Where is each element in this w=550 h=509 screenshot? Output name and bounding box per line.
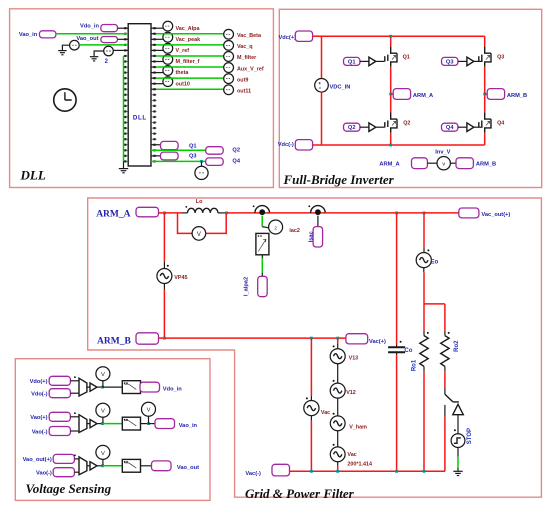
wire - Vdc(-) tag to rail [313,144,322,146]
node - Eo branch [423,212,426,215]
node - Vdo_in probe [101,386,104,389]
wire - voltmeter loop right [206,214,227,233]
svg-text:Vac_peak: Vac_peak [176,37,201,43]
tag I_alpa2 (vertical) [258,276,268,296]
source V13 [330,349,345,364]
wire - ARM_B tag to node [159,337,165,339]
wire - DLL pin to probe out11 (green) [151,88,156,90]
wire - Vac to bus [310,416,312,421]
wire - Vao(+) to summer [70,416,79,418]
wire - Co to bus [396,355,398,472]
wire - V13 chain top lead [337,338,339,344]
wire - triangle to STOP source [457,415,459,434]
node - second probe [147,422,150,425]
source Eo [416,253,431,268]
tag Vac_out(+) [459,208,479,218]
filter block Vao_in [122,417,140,430]
svg-text:V: V [101,451,105,457]
node - ARM_B junction [163,337,166,340]
wire - phase A rail segments [390,36,392,46]
wire - Vdo(-) to summer [70,392,79,394]
svg-text:ARM_B: ARM_B [97,336,131,346]
svg-text:I_alpa2: I_alpa2 [244,277,250,296]
svg-text:ARM_A: ARM_A [413,93,433,99]
svg-text:2: 2 [274,226,277,231]
tag Vao(-) [53,468,74,477]
svg-text:Co: Co [404,348,412,354]
probe Vac_Beta [224,29,234,39]
svg-text:out11: out11 [237,88,251,94]
svg-text:Q2: Q2 [348,125,356,131]
wire - Vdo(+) to summer [70,380,79,382]
wire - sensor1 to DLL pin4 (green) [79,44,128,46]
tag Vdc(+) [295,31,312,41]
Full-Bridge Inverter section border box [279,9,541,187]
node - phase A bottom [389,144,392,147]
probe V_ref [163,43,173,53]
probe Vac_peak [163,32,173,42]
wire - iac2 sensor drop (green) [261,216,263,227]
svg-text:Vdo_in: Vdo_in [80,23,99,29]
wire - node to filter [103,465,123,467]
svg-text:STOP: STOP [467,428,473,444]
wire - V_ham to Vac200 [337,431,339,447]
wire - DC bus bottom rail [322,144,485,146]
svg-text:Full-Bridge Inverter: Full-Bridge Inverter [283,172,395,187]
tag gate Q4 [442,123,458,131]
tag Vdo(-) [49,389,70,398]
source Vac (grid) [304,401,319,416]
svg-text:Vao_out: Vao_out [177,465,199,471]
wire - gate tag to driver Q1 [360,60,369,62]
svg-text:Vdc(+): Vdc(+) [279,35,297,41]
probe VP2 (on Q4 wire) [195,166,208,179]
wire - node to filter [103,386,123,388]
tag Q4 out [206,158,224,166]
svg-text:Vao_out(+): Vao_out(+) [23,457,52,463]
wire - gate tag to driver Q4 [458,126,467,128]
wire - filter to second probe node [141,423,149,425]
tag Q2 out [206,147,224,155]
svg-text:Q2: Q2 [232,148,240,154]
tag Vao_out [152,461,172,471]
wire - Isac sensor drop [317,216,319,227]
wire - DLL pin to tag Q1 [151,144,161,146]
svg-text:Vdo_in: Vdo_in [163,386,182,392]
node - Vao_out probe [101,464,104,467]
source Vac 200*1.414 [330,447,345,462]
probe M_filter_f [163,55,173,65]
wire - Ro1 upper lead [423,304,425,331]
tag Vao_out(+) [53,454,74,463]
svg-text:ARM_B: ARM_B [507,93,527,99]
clock symbol [54,89,76,111]
probe Vac_Alpa [163,21,173,31]
wire - node to filter [103,423,123,425]
wire - Eo to resistor branch [423,268,425,273]
probe out9 [224,74,234,84]
wire - DC bus top rail [322,35,485,37]
DLL section border box [10,9,274,188]
svg-text:Vdo(-): Vdo(-) [31,392,48,398]
ground - sensor2 [90,56,98,58]
svg-text:Vac_Beta: Vac_Beta [237,33,262,39]
node - ARM_A junction [163,212,166,215]
wire - DLL pin to probe Vac_q (green) [151,44,156,46]
wire - DLL grounded-input bus (green vertical) [123,56,125,161]
wire - Co branch down [396,213,398,345]
voltmeter across Lo [192,227,206,241]
source V12 [330,383,345,398]
svg-text:Vac_Alpa: Vac_Alpa [176,26,201,32]
wire - hook to iac2 probe [262,227,269,228]
wire - driver to gate Q4 [474,126,483,128]
wire - VP45 to ARM_B node [163,284,165,290]
node - probe on Q4 wire [200,160,203,163]
ground - DLL input bus [119,168,128,170]
wire - Vao_out(+) to summer [74,458,79,460]
wire - driver to gate Q3 [474,60,483,62]
tag Q1 out [161,141,179,149]
wire - Ro1 lower lead to bus [423,366,425,371]
wire - node to inductor [164,212,182,214]
tag ARM_B meter [456,158,473,169]
wire - Vdc(+) tag to rail [313,35,322,37]
tag ARM_B (filter) [136,333,159,344]
filter block Vdo_in [122,381,140,394]
tag Vdc(-) [295,140,312,150]
svg-text:Q3: Q3 [446,59,454,65]
svg-text:Q4: Q4 [497,120,504,126]
svg-text:out9: out9 [237,77,248,83]
voltmeter probe 2 over Vao_in [142,402,156,416]
resistor Ro2 [441,336,449,367]
switch STOP blade [445,394,459,402]
source V_ham [330,416,345,431]
DLL right pins [151,27,157,162]
wire - Vdo_in tag to DLL pin1 [118,27,129,29]
wire - Vac grid branch [310,338,312,396]
tag gate Q3 [442,57,458,65]
svg-text:Vao_out: Vao_out [76,36,98,42]
wire - sensor2 to DLL pin5 [113,49,128,51]
svg-text:V12: V12 [346,390,356,396]
svg-text:Vao_in: Vao_in [179,423,198,429]
DLL block U1 body [128,24,151,166]
node - Vac branch [310,337,313,340]
svg-text:Q4: Q4 [232,159,240,165]
scope probe block I_alpa2 [256,233,269,254]
svg-text:Q4: Q4 [446,125,454,131]
wire - DLL pin to tag Q2 (green) [151,149,206,151]
svg-text:V: V [101,372,105,378]
wire - DLL pin to probe M_filter_f [151,61,163,63]
gate driver triangle Q1 [369,57,376,66]
wire - buffer to node [97,423,103,425]
svg-text:Vao(+): Vao(+) [30,415,47,421]
svg-text:V: V [147,408,151,414]
node - ARM_A mid junction [389,93,392,96]
transistor Q1 (MOSFET) [385,47,397,67]
DLL left pins [124,27,129,162]
resistor Ro1 [420,336,428,367]
svg-text:Q1: Q1 [403,55,410,61]
wire - to Vac_out tag [424,212,459,214]
tag Isac (vertical) [313,227,323,247]
node - bus Ro1 [423,470,426,473]
probe out11 [224,85,234,95]
summer Vao_in [79,415,87,433]
voltmeter probe over Vao_out [96,445,110,459]
svg-text:Ro1: Ro1 [412,359,418,371]
inductor Lo [182,212,188,214]
svg-text:Grid & Power Filter: Grid & Power Filter [245,486,355,501]
voltmeter probe over Vao_in [96,403,110,417]
transistor Q4 (MOSFET) [479,113,491,133]
svg-text:Q3: Q3 [189,154,197,160]
tag Vao(-) [49,427,70,436]
svg-text:Vao(-): Vao(-) [32,429,48,435]
wire - left rail upper (Vdc+) [321,36,323,78]
tag Vac(-) [272,464,290,476]
source VDC_IN [315,79,329,93]
gate driver triangle Q4 [467,123,474,132]
node - bus V13 chain [336,470,339,473]
summer Vao_out [79,457,87,475]
source VP45 [157,269,172,284]
wire - ARM_B horizontal to Vac(+) [164,337,346,339]
gate driver triangle Q3 [467,57,474,66]
sensor VSEN2 (voltage sensor at DLL input) [104,46,114,56]
wire - voltmeter to tag [450,162,456,164]
sensor VSEN1 (voltage sensor at DLL input) [70,40,80,50]
probe out10 [163,77,173,87]
wire - jog to Ro2 [424,303,445,305]
wire - main line to current sensor 1 [227,212,255,214]
svg-text:M_filter_f: M_filter_f [176,59,200,65]
switch gate triangle [453,404,464,414]
wire - DLL pin to tag Q3 [151,155,161,157]
wire - DLL pin to probe Aux_V_ref (green) [151,66,156,68]
node - Vao_in probe [101,422,104,425]
svg-text:V_ham: V_ham [349,424,367,430]
tag gate Q2 [344,123,360,131]
wire - Vao(-) to summer [74,471,79,473]
svg-text:V_ref: V_ref [176,48,190,54]
tag gate Q1 [344,57,360,65]
transistor Q2 (MOSFET) [385,113,397,133]
svg-text:ARM_A: ARM_A [96,209,130,219]
wire - V13 to V12 [337,364,339,383]
wire - buffer to node [97,386,103,388]
ground - STOP source [453,470,462,472]
svg-text:Vao_in: Vao_in [19,32,38,38]
wire - Ro2 upper lead [444,304,446,331]
wire - probe stem [102,417,104,424]
tag Vdo_in [101,25,118,32]
wire - to ARM_B tag [485,93,488,95]
svg-text:Vac(-): Vac(-) [245,471,261,477]
wire - bottom bus [290,470,445,472]
svg-text:200*1.414: 200*1.414 [347,461,372,467]
wire - to output tag [141,465,152,467]
wire - between current sensors [270,212,311,214]
probe theta [163,66,173,76]
svg-text:iac2: iac2 [289,228,300,234]
ground - sensor1 [58,50,66,52]
wire - DLL pin to probe Vac_peak [151,38,163,40]
tag ARM_A (filter) [136,207,159,217]
svg-text:V: V [197,232,201,238]
wire - gate tag to driver Q2 [360,126,369,128]
wire - DLL pin to probe Vac_Alpa [151,27,163,29]
svg-text:out10: out10 [176,81,190,87]
gate driver triangle Q2 [369,123,376,132]
svg-text:Vao(-): Vao(-) [36,471,52,477]
voltmeter Inv_V [437,157,450,170]
wire - V12 to V_ham [337,398,339,416]
wire - left rail lower [321,92,323,145]
wire - probe stem [102,381,104,388]
svg-text:Voltage Sensing: Voltage Sensing [26,481,112,496]
buffer triangle Vao_in [90,420,97,428]
tag ARM_A meter [412,158,428,169]
tag Vao_in [155,419,175,429]
wire - sensor2 to ground2 [94,51,104,56]
wire - STOP to ground (green) [457,448,459,457]
tag ARM_A (inverter mid A) [393,89,410,100]
Grid & Power Filter section border (L-shape) [88,198,542,497]
svg-text:M_filter: M_filter [237,55,257,61]
wire - sensor2 to node [325,212,396,214]
svg-text:Q2: Q2 [403,120,410,126]
svg-text:VP45: VP45 [174,275,187,281]
svg-text:V13: V13 [349,356,359,362]
wire - Eo branch down [423,213,425,248]
tag Vac(+) [346,334,368,344]
buffer triangle Vao_out [90,462,97,470]
wire - Vao_out tag to DLL pin3 [118,38,129,40]
svg-text:Q1: Q1 [348,59,356,65]
node - Co branch [395,212,398,215]
wire - probe stem [102,459,104,466]
svg-text:DLL: DLL [20,168,46,183]
svg-text:Vac_out(+): Vac_out(+) [481,212,510,218]
wire - DLL pin to tag Q4 (green) [151,160,206,162]
wire - stub to DLL ground [123,161,125,168]
svg-text:Vac_q: Vac_q [237,44,253,50]
probe Vac_q [224,40,234,50]
current sensor hump 2 [311,206,326,213]
wire - switch bottom contact [444,405,446,417]
capacitor Co [396,345,398,347]
wire - to ARM_A tag [391,93,394,95]
wire - left rail ARM_A down to VP45 [163,213,165,262]
svg-text:Vac: Vac [321,410,330,416]
wire - DLL pin to probe V_ref [151,49,163,51]
node - phase A top [389,35,392,38]
wire - DLL pin to probe theta [151,72,163,74]
node - V13 chain branch [336,337,339,340]
wire - DLL pin to probe out10 [151,83,163,85]
svg-text:Q3: Q3 [497,55,504,61]
node - bus Vac branch [310,470,313,473]
wire - Vac200 to bus [337,462,339,466]
tag Vao_out [101,37,118,43]
wire - second probe stem [148,416,150,424]
node - bus Co [395,470,398,473]
filter block Vao_out [122,459,140,472]
tag Vao_in [39,31,56,38]
source STOP (step) [451,434,465,448]
current probe iac2 [269,220,283,234]
wire - tag to voltmeter Inv_V [427,162,437,164]
probe Aux_V_ref [224,63,234,73]
tag Vdo(+) [49,376,70,385]
tag ARM_B (inverter mid B) [487,89,504,100]
wire - voltmeter loop left [178,213,193,234]
wire - Vao_in to DLL pin2 (green) [56,33,128,35]
wire - node to Eo branch [397,212,424,214]
svg-text:theta: theta [176,70,190,76]
wire - phase B rail segments [484,36,486,46]
svg-text:Q1: Q1 [189,144,197,150]
Voltage Sensing section border box [15,359,210,501]
svg-text:VDC_IN: VDC_IN [330,85,351,91]
wire - DLL pin to probe out9 (green) [151,77,156,79]
tag Vao(+) [49,412,70,421]
probe M_filter [224,52,234,62]
svg-text:Vdc(-): Vdc(-) [278,142,294,148]
wire - to output tag [149,423,156,425]
svg-text:Vdo(+): Vdo(+) [30,379,48,385]
wire - Ro2 to switch [444,366,446,371]
svg-text:Inv_V: Inv_V [435,149,450,155]
wire - DLL pin to probe Vac_Beta (green) [151,33,156,35]
svg-text:ARM_A: ARM_A [379,161,399,167]
svg-text:Vac: Vac [347,452,356,458]
svg-text:Ro2: Ro2 [454,340,460,352]
svg-text:Isac: Isac [308,231,314,242]
wire - driver to gate Q1 [376,60,385,62]
svg-text:Aux_V_ref: Aux_V_ref [237,66,264,72]
tag Q3 out [161,152,179,160]
wire - to output tag [139,386,142,388]
svg-text:Vac(+): Vac(+) [369,339,386,345]
wire - gate tag to driver Q3 [458,60,467,62]
svg-text:Lo: Lo [196,199,203,205]
svg-text:Eo: Eo [431,260,439,266]
wire - Vao(-) to summer [70,430,79,432]
node - ARM_B mid junction [483,93,486,96]
wire - ARM_A tag to node [159,212,165,214]
wire - DLL pin to probe M_filter (green) [151,55,156,57]
svg-text:V: V [101,409,105,415]
summer Vdo_in [79,378,87,396]
wire - driver to gate Q2 [376,126,385,128]
voltmeter probe over Vdo_in [96,367,110,381]
wire - buffer to node [97,465,103,467]
wire - probe block to tag (green) [261,255,263,258]
svg-text:2: 2 [105,59,109,65]
svg-text:DLL: DLL [133,115,147,122]
current sensor hump 1 [255,206,270,213]
svg-text:ARM_B: ARM_B [476,161,496,167]
buffer triangle Vdo_in [90,383,97,391]
svg-text:v: v [442,162,445,168]
transistor Q3 (MOSFET) [479,47,491,67]
tag Vdo_in [140,382,160,392]
